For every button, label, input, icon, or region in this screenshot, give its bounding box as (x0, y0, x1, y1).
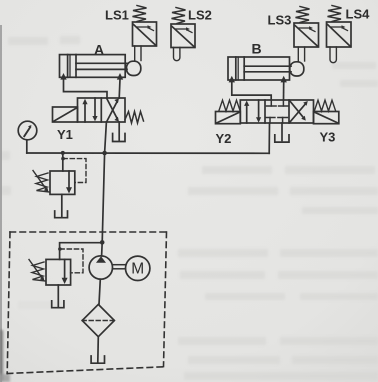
spring (LS3 return) (296, 7, 310, 23)
cylinder A (60, 55, 128, 78)
solenoid Y1 (53, 107, 78, 122)
cylinder A rod roller cap (127, 61, 141, 75)
filter F1 (82, 304, 114, 336)
LS1 roller pin (135, 46, 141, 61)
svg-text:M: M (131, 261, 144, 278)
solenoid Y3 (314, 112, 339, 124)
limit switch LS4 (327, 22, 352, 47)
valve Y1 left position arrows (82, 98, 97, 122)
LS3 roller pin (298, 47, 304, 61)
pressure gauge (18, 121, 37, 140)
tank (valve Y1 T-port) (113, 122, 125, 142)
valve Y1 body (4/2) (78, 98, 126, 122)
node: main junction (102, 151, 107, 156)
node: junction at relief tap (61, 151, 65, 155)
pump P1 (89, 256, 112, 279)
svg-text:Y2: Y2 (216, 131, 232, 146)
tank (RV2 drain) (52, 285, 64, 308)
spring (LS1 return) (133, 6, 147, 22)
node: pilot tap upper relief (61, 157, 65, 161)
wire: pump suction (99, 279, 100, 304)
cylinder B left port arrow (229, 76, 235, 83)
valve Y2Y3 centre position (blocked) (265, 100, 288, 123)
cylinder B (228, 57, 291, 80)
valve Y2Y3 left position arrows (244, 100, 261, 123)
spring RV1 (adjustable) (33, 171, 49, 193)
wire: branch to RV2 (60, 243, 103, 260)
svg-text:Y3: Y3 (320, 130, 336, 145)
cylinder A right port arrow (117, 73, 123, 80)
shaft pump-motor (113, 265, 126, 269)
spring (valve Y1 return) (125, 112, 144, 124)
wire: filter to tank (97, 337, 100, 362)
spring (right, above solenoid Y3) (315, 100, 336, 111)
valve Y1 crossed position (107, 98, 120, 122)
cylinder A left port arrow (60, 73, 66, 80)
wire: cyl A right port to valve Y1 B-port (118, 79, 121, 98)
motor M1 (126, 256, 150, 280)
valve Y2Y3 crossed position (290, 101, 308, 123)
wire: cyl B right port to valve B-port (283, 82, 285, 100)
cylinder B right port arrow (281, 76, 287, 83)
limit switch LS2 (171, 24, 195, 48)
page gutter shadow lower-left (0, 330, 10, 382)
svg-text:LS4: LS4 (346, 7, 371, 22)
spring (LS4 return) (328, 6, 342, 22)
relief valve RV1 (50, 153, 75, 194)
wire: gauge stem (26, 140, 28, 153)
wire: main pressure line (27, 152, 269, 154)
spring (LS2 return) (172, 8, 186, 24)
node: pump junction (100, 240, 105, 245)
limit switch LS1 (133, 22, 157, 46)
power unit enclosure (dashed) (7, 232, 166, 374)
relief valve RV2 (46, 259, 71, 285)
svg-text:B: B (252, 41, 262, 57)
LS4 roller pin (330, 47, 336, 63)
wire: P line valve Y1 down to pump (102, 122, 107, 256)
svg-text:LS1: LS1 (105, 8, 129, 23)
page edge shadow left (0, 25, 2, 382)
wire: cyl A left port to valve Y1 A-port (64, 79, 108, 98)
cylinder B rod roller cap (290, 62, 304, 76)
tank (suction) (91, 356, 104, 363)
pilot line (dashed) RV1 (63, 159, 86, 183)
spring (left, above solenoid Y2) (219, 100, 240, 111)
solenoid Y2 (216, 112, 241, 124)
spring RV2 (adjustable) (29, 260, 45, 282)
valve Y2Y3 body (4/3) (240, 100, 313, 123)
wire: valve Y2Y3 P-port to main line (268, 123, 270, 153)
LS2 roller pin (174, 48, 180, 61)
tank (valve Y2Y3 T-port) (275, 123, 289, 142)
node: pilot tap RV2 (58, 247, 62, 251)
wire: cyl B left port to valve A-port (232, 82, 271, 100)
tank (RV1 drain) (55, 194, 68, 217)
svg-text:LS3: LS3 (268, 13, 292, 28)
pilot line (dashed) RV2 (60, 249, 83, 273)
limit switch LS3 (294, 23, 319, 47)
svg-text:Y1: Y1 (57, 127, 73, 142)
svg-text:LS2: LS2 (188, 8, 212, 23)
